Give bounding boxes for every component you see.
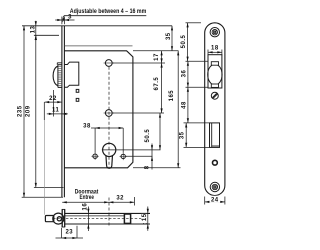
svg-text:165: 165	[169, 90, 175, 102]
svg-text:38: 38	[83, 124, 91, 130]
svg-text:23: 23	[65, 229, 73, 235]
svg-text:Entree: Entree	[80, 195, 95, 201]
svg-text:22: 22	[49, 96, 57, 102]
svg-text:13: 13	[30, 26, 36, 34]
svg-text:48: 48	[181, 101, 187, 109]
svg-text:16: 16	[83, 203, 89, 211]
svg-text:Adjustable between 4 – 16 mm: Adjustable between 4 – 16 mm	[70, 8, 147, 15]
svg-text:209: 209	[26, 105, 32, 117]
svg-text:11: 11	[52, 108, 60, 114]
svg-text:8: 8	[145, 165, 151, 169]
svg-text:67.5: 67.5	[154, 77, 160, 91]
svg-text:50.5: 50.5	[145, 129, 151, 143]
svg-text:36: 36	[181, 70, 187, 78]
svg-text:15: 15	[142, 213, 148, 221]
svg-text:24: 24	[211, 198, 219, 204]
svg-text:17: 17	[154, 53, 160, 61]
svg-text:35: 35	[166, 32, 172, 40]
svg-text:50.5: 50.5	[181, 35, 187, 49]
svg-text:3: 3	[68, 15, 72, 21]
svg-text:235: 235	[17, 105, 23, 117]
svg-text:35: 35	[180, 131, 186, 139]
svg-text:18: 18	[211, 45, 219, 51]
svg-text:32: 32	[116, 196, 124, 202]
